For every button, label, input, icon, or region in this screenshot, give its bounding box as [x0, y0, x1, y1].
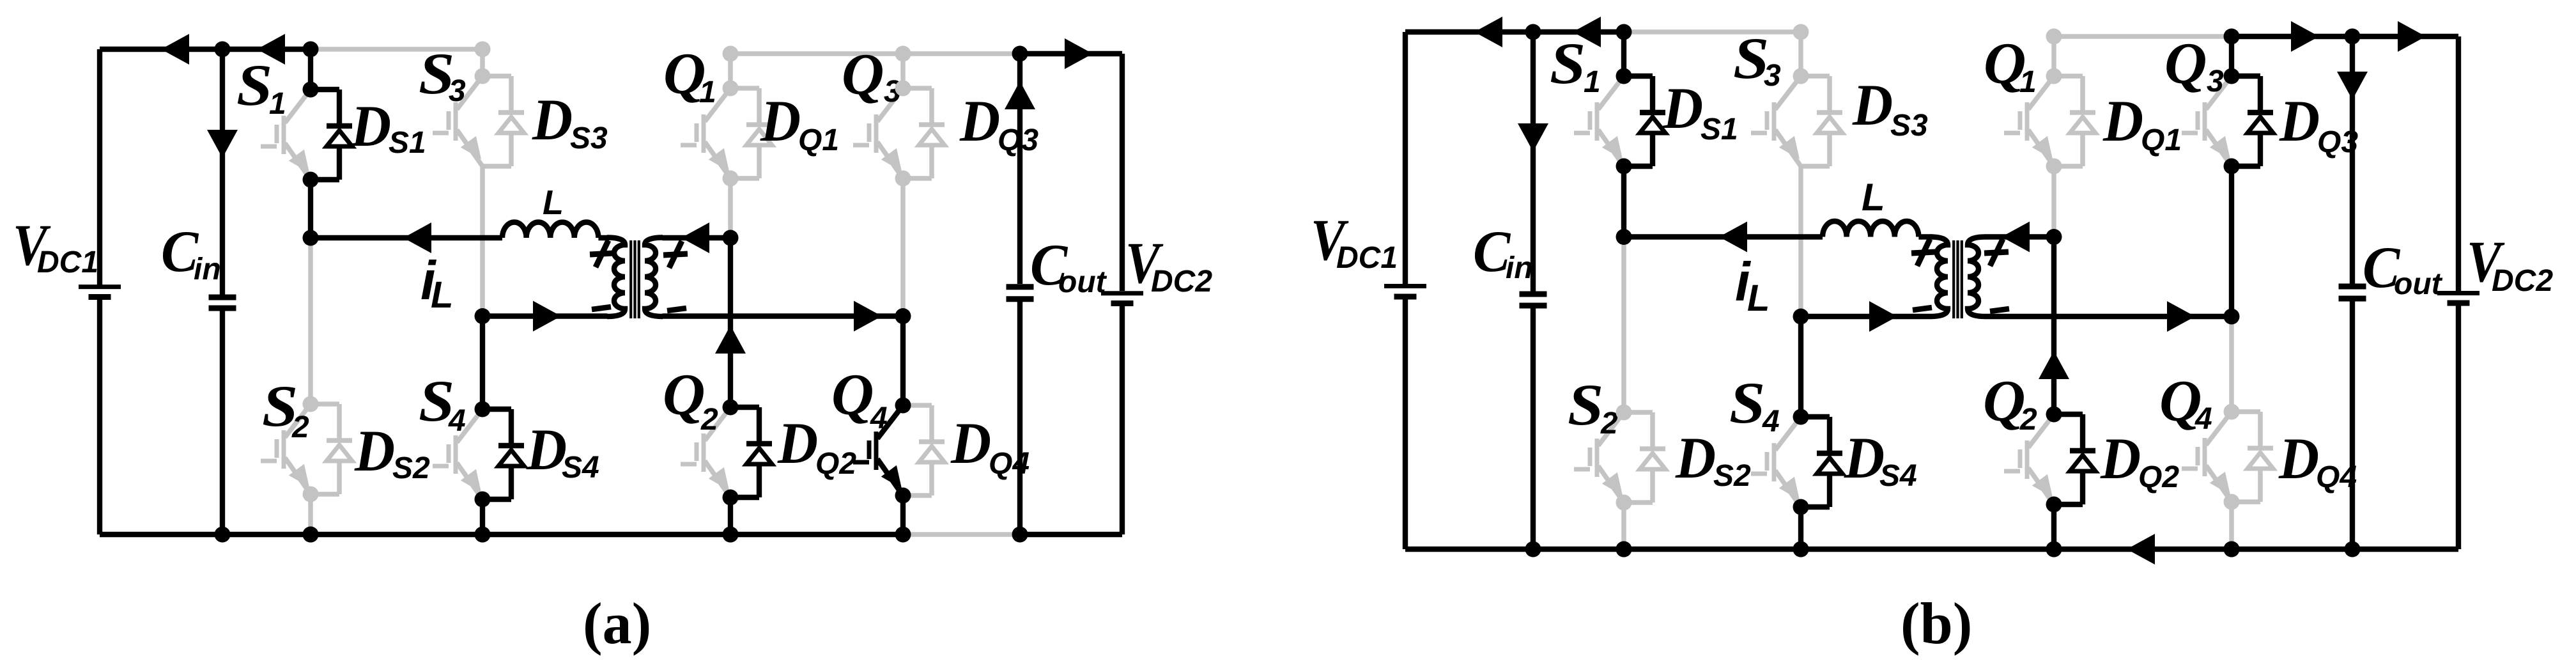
- svg-text:L: L: [1862, 176, 1885, 219]
- svg-text:4: 4: [870, 401, 888, 435]
- svg-text:2: 2: [2019, 403, 2037, 437]
- svg-text:1: 1: [699, 75, 716, 109]
- svg-text:in: in: [194, 253, 221, 286]
- svg-text:1: 1: [269, 87, 286, 121]
- svg-text:DC1: DC1: [37, 245, 98, 279]
- svg-text:Q3: Q3: [998, 123, 1038, 157]
- svg-text:Q1: Q1: [798, 123, 839, 157]
- svg-text:1: 1: [2019, 65, 2037, 99]
- svg-text:DC2: DC2: [2492, 264, 2553, 298]
- svg-text:S1: S1: [1701, 113, 1738, 146]
- svg-text:D: D: [354, 419, 395, 484]
- svg-text:2: 2: [1600, 407, 1618, 440]
- svg-text:3: 3: [1764, 59, 1781, 93]
- svg-text:DC2: DC2: [1151, 265, 1212, 299]
- svg-text:S2: S2: [392, 451, 430, 485]
- svg-text:S: S: [1550, 31, 1585, 96]
- svg-text:S1: S1: [389, 126, 426, 160]
- svg-text:D: D: [532, 88, 573, 153]
- svg-text:(a): (a): [583, 591, 651, 656]
- svg-text:D: D: [1662, 76, 1703, 141]
- svg-text:Q4: Q4: [989, 447, 1030, 481]
- svg-text:1: 1: [1584, 65, 1601, 99]
- svg-text:Q2: Q2: [815, 447, 856, 481]
- svg-text:D: D: [950, 411, 991, 476]
- svg-text:L: L: [1747, 277, 1770, 319]
- svg-text:Q2: Q2: [2138, 460, 2179, 494]
- svg-text:D: D: [1852, 73, 1893, 138]
- svg-text:in: in: [1506, 251, 1533, 285]
- svg-text:S3: S3: [1890, 109, 1928, 143]
- svg-text:4: 4: [2194, 402, 2212, 436]
- svg-text:(b): (b): [1901, 591, 1972, 656]
- svg-text:2: 2: [291, 410, 309, 444]
- svg-text:D: D: [2279, 89, 2320, 154]
- svg-text:Q: Q: [663, 362, 705, 427]
- svg-text:Q1: Q1: [2141, 123, 2182, 157]
- svg-text:out: out: [1058, 265, 1107, 299]
- svg-text:D: D: [2102, 89, 2143, 154]
- svg-text:D: D: [777, 411, 818, 476]
- svg-text:D: D: [760, 89, 801, 154]
- svg-text:Q: Q: [842, 42, 884, 107]
- svg-text:S4: S4: [562, 451, 599, 485]
- svg-text:D: D: [350, 94, 391, 159]
- svg-text:3: 3: [449, 74, 466, 108]
- svg-text:Q4: Q4: [2316, 460, 2357, 494]
- svg-text:3: 3: [2207, 65, 2224, 98]
- svg-text:Q3: Q3: [2317, 125, 2358, 159]
- svg-text:S: S: [236, 52, 272, 118]
- svg-text:S2: S2: [1713, 459, 1751, 493]
- svg-text:DC1: DC1: [1336, 241, 1398, 275]
- svg-text:Q: Q: [2164, 31, 2207, 96]
- svg-text:Q: Q: [831, 362, 874, 427]
- svg-text:Q: Q: [1983, 368, 2025, 433]
- svg-text:4: 4: [1762, 405, 1780, 439]
- svg-text:D: D: [526, 417, 567, 483]
- svg-text:L: L: [543, 183, 564, 222]
- svg-text:D: D: [959, 89, 1000, 154]
- svg-text:S: S: [1729, 370, 1765, 435]
- svg-text:S: S: [1568, 372, 1603, 437]
- svg-text:S3: S3: [570, 121, 608, 155]
- svg-text:D: D: [1844, 426, 1885, 491]
- svg-text:S4: S4: [1879, 459, 1917, 493]
- svg-text:D: D: [2100, 426, 2141, 492]
- svg-text:D: D: [1675, 426, 1716, 491]
- svg-text:out: out: [2394, 267, 2443, 301]
- svg-text:L: L: [431, 274, 453, 316]
- svg-text:4: 4: [448, 404, 466, 438]
- svg-text:D: D: [2278, 426, 2319, 492]
- svg-text:2: 2: [700, 403, 718, 437]
